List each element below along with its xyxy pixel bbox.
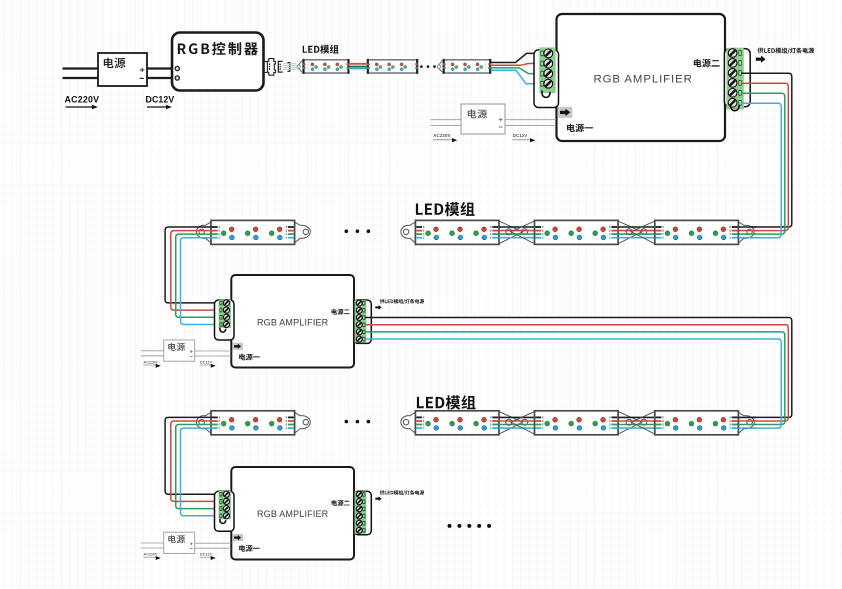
RGB controller U1 [172, 33, 264, 91]
wire M1 red to amplifier U3 (row 2) [171, 231, 220, 311]
label 电源二 (U3) [332, 309, 350, 315]
wire U3 black output to row-3 strip [365, 318, 792, 418]
ellipsis (row 2 strip continues) [345, 229, 349, 233]
wire M3 to M4 (row 2) [618, 226, 655, 228]
wire U3 red output to row-3 strip [365, 325, 788, 421]
LED module M1 (row 2) [196, 222, 211, 243]
wire M5 green to amplifier U4 (row 3) [176, 425, 220, 509]
wire M5 blue to amplifier U4 (row 3) [181, 428, 220, 516]
wire M5 black to amplifier U4 (row 3) [165, 417, 219, 494]
wire M2 to M3 (row 2) [499, 226, 535, 228]
label LED模组 (row 2) [416, 202, 475, 216]
wire AC220V input to power supply PS1 [63, 67, 99, 69]
LED module M5 (row 3) [196, 412, 211, 433]
connector J1 from controller to LED strip [264, 61, 268, 63]
wire U3 outputs into M8 (row 3) [738, 416, 756, 418]
output arrow (U4) [375, 496, 381, 501]
label LED模组 (row 3) [417, 395, 476, 409]
output arrow (U3) [375, 305, 381, 310]
ellipsis (more amplifier stages) [448, 524, 452, 528]
LED module M4 (row 2) [631, 221, 655, 244]
ellipsis (top strip continues) [420, 65, 423, 68]
wire M5 red to amplifier U4 (row 3) [171, 421, 220, 501]
label 供LED模组/灯条电源 (U2 output) [758, 48, 815, 54]
wire DC12V from PS4 to amplifier [195, 542, 232, 544]
wire M1 blue to amplifier U3 (row 2) [181, 238, 220, 325]
power supply PS4 [164, 532, 195, 553]
power-in indicator arrow (U4 电源一) [233, 534, 243, 541]
svg-text:DC12V: DC12V [513, 133, 527, 138]
wire M1 green to amplifier U3 (row 2) [176, 234, 220, 317]
power supply PS3 [164, 340, 195, 361]
RGB amplifier U4 [231, 467, 354, 560]
svg-text:AC220V: AC220V [144, 360, 159, 364]
wire U2 red output to row-2 strip [737, 83, 788, 230]
label 电源一 (U4) [239, 545, 260, 552]
label 电源二 (U2) [694, 59, 720, 67]
svg-text:RGB AMPLIFIER: RGB AMPLIFIER [257, 509, 329, 519]
wire M1 black to amplifier U3 (row 2) [165, 227, 219, 303]
label 供LED模组/灯条电源 (U3 output) [380, 299, 424, 304]
wire U3 blue output to row-3 strip [365, 339, 781, 428]
RGB amplifier U2 [557, 14, 726, 141]
label 供LED模组/灯条电源 (U4 output) [380, 490, 424, 495]
label LED模组 (top strip) [303, 45, 339, 54]
wire AC input to power supply PS4 [141, 542, 164, 544]
power-in indicator arrow (U2 电源一) [557, 107, 572, 118]
wire U2 black output to row-2 strip [737, 73, 792, 227]
power supply PS2 [461, 104, 505, 134]
wire U3 green output to row-3 strip [365, 332, 785, 425]
svg-text:AC220V: AC220V [144, 553, 159, 557]
svg-text:DC12V: DC12V [200, 360, 213, 364]
RGB amplifier U3 [231, 275, 354, 368]
wire M7 to M8 (row 3) [618, 416, 655, 418]
svg-text:DC12V: DC12V [200, 553, 213, 557]
wires J1 to LED strip [283, 63, 297, 65]
wire T3 red to U2 terminal 2 [491, 64, 541, 66]
svg-text:DC12V: DC12V [146, 95, 175, 105]
LED module M7 (row 3) [511, 412, 535, 435]
wire AC input to power supply PS2 [431, 119, 462, 121]
ellipsis (row 3 strip continues) [345, 420, 349, 424]
input terminal block (U4 left) [215, 491, 235, 531]
LED module T3 [438, 60, 443, 73]
LED module T1 (top strip) [298, 60, 303, 73]
wire M6 to M7 (row 3) [499, 416, 535, 418]
label 电源二 (U4) [332, 500, 350, 506]
wire DC12V from PS3 to amplifier [195, 350, 232, 352]
svg-text:AC220V: AC220V [65, 95, 100, 105]
wire T1 to T2 [349, 63, 367, 65]
svg-text:AC220V: AC220V [433, 133, 451, 138]
wire U2 blue output to row-2 strip [737, 103, 781, 238]
wire U2 outputs into M4 (row 2) [738, 226, 756, 228]
wire U2 green output to row-2 strip [737, 93, 785, 234]
svg-text:RGB AMPLIFIER: RGB AMPLIFIER [594, 74, 693, 86]
input terminal block TB1 (U2 left) [534, 50, 559, 108]
LED module M8 (row 3) [631, 412, 655, 435]
wire T3 blue to U2 terminal 4 [491, 70, 541, 83]
power supply PS1 [98, 53, 147, 86]
label 电源一 (U2) [567, 124, 593, 132]
LED module M3 (row 2) [511, 221, 535, 244]
output terminal block TB2 (U2 right) [724, 49, 750, 107]
output terminal block (U4 right) [354, 491, 372, 534]
wire T3 green to U2 terminal 3 [491, 68, 541, 74]
wire T3 black to amplifier U2 terminal 1 [491, 53, 541, 62]
input terminal block (U3 left) [215, 300, 235, 340]
output terminal block (U3 right) [354, 300, 372, 343]
LED module M6 (row 3) [401, 412, 416, 433]
label 电源一 (U3) [239, 354, 260, 361]
svg-text:RGB AMPLIFIER: RGB AMPLIFIER [257, 318, 329, 328]
LED module T2 [367, 60, 417, 73]
wire DC12V from PS1 to controller [147, 67, 172, 69]
power-in indicator arrow (U3 电源一) [233, 343, 243, 350]
output arrow (U2) [756, 56, 766, 63]
wire AC input to power supply PS3 [141, 350, 164, 352]
wire DC12V from PS2 to U2 [505, 119, 556, 121]
LED module M2 (row 2) [401, 222, 416, 243]
